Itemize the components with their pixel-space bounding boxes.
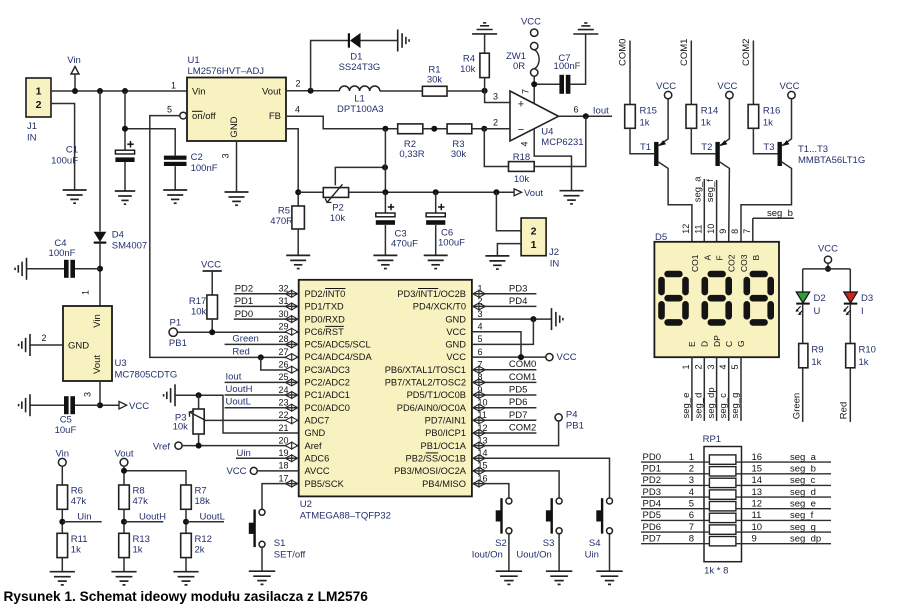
svg-text:PD5: PD5: [509, 385, 527, 396]
ground C6: [424, 254, 448, 256]
wire J2.1 to ground: [497, 244, 521, 256]
pin arrow (U2 right): [473, 442, 486, 449]
ground R13: [111, 571, 136, 573]
svg-text:Iout: Iout: [593, 106, 609, 117]
svg-text:L1: L1: [354, 94, 365, 105]
ground P3 (rotated): [174, 384, 176, 406]
svg-text:MC7805CDTG: MC7805CDTG: [115, 370, 178, 381]
svg-text:3: 3: [493, 92, 498, 102]
pin arrow (U2 right): [473, 303, 486, 310]
junction Vout branch: [121, 468, 127, 474]
svg-text:R17: R17: [189, 296, 206, 307]
svg-text:ADC7: ADC7: [305, 416, 330, 426]
svg-text:VCC: VCC: [656, 81, 676, 92]
svg-text:C2: C2: [191, 152, 203, 163]
resistor R14: [686, 105, 697, 129]
svg-text:R12: R12: [195, 534, 212, 545]
pin arrow (U2 right): [473, 404, 486, 411]
svg-text:seg_f: seg_f: [705, 179, 716, 203]
wire D3 to R10: [849, 304, 851, 344]
svg-text:PB7/XTAL2/TOSC2: PB7/XTAL2/TOSC2: [385, 378, 466, 388]
svg-text:U: U: [814, 306, 821, 317]
svg-text:Vout: Vout: [262, 87, 281, 98]
svg-text:Vin: Vin: [67, 55, 81, 66]
svg-text:R13: R13: [133, 534, 150, 545]
pin arrow (U2 left): [285, 392, 298, 399]
svg-text:D4: D4: [112, 230, 124, 241]
svg-text:PD2/INT0: PD2/INT0: [305, 289, 346, 299]
svg-text:PD5: PD5: [643, 510, 661, 521]
svg-text:7: 7: [742, 229, 752, 234]
wire GND pin3 to ground: [472, 318, 552, 320]
wire T1 collector: [659, 162, 692, 242]
svg-text:VCC: VCC: [129, 401, 149, 412]
junction rail/R5: [295, 189, 301, 195]
svg-text:30k: 30k: [427, 75, 443, 86]
svg-text:PD6/AIN0/OC0A: PD6/AIN0/OC0A: [397, 403, 467, 413]
pin arrow (U2 right): [473, 455, 486, 462]
junction R17/P1: [209, 329, 215, 335]
svg-text:9: 9: [752, 533, 757, 544]
overline INT1 (right): [418, 288, 438, 290]
svg-text:15: 15: [752, 464, 763, 475]
svg-text:U3: U3: [115, 358, 127, 369]
svg-text:2: 2: [689, 464, 694, 475]
wire pin4 to ground: [534, 129, 571, 191]
svg-text:470R: 470R: [270, 216, 293, 227]
wire R11 to ground: [61, 558, 63, 572]
wire R9 to Green net: [802, 368, 804, 422]
wire Vref to U2 pin20: [182, 445, 299, 447]
resistor R15: [625, 105, 636, 129]
svg-text:seg_dp: seg_dp: [706, 387, 717, 418]
pin arrow (U2 left): [285, 404, 298, 411]
svg-text:16: 16: [752, 452, 763, 463]
junction R2/R3 node: [431, 126, 437, 132]
pin arrow (U2 left): [285, 328, 298, 335]
wire C7 to ground: [570, 34, 585, 84]
power flag VCC (arrow): [119, 401, 127, 409]
svg-text:VCC: VCC: [226, 466, 246, 477]
resistor R3: [447, 124, 472, 134]
svg-text:470uF: 470uF: [391, 239, 418, 250]
net stub seg_c (display pin 4): [728, 357, 730, 421]
svg-text:P2: P2: [332, 203, 344, 214]
ground C3: [373, 254, 397, 256]
svg-text:2: 2: [531, 226, 537, 238]
svg-text:FB: FB: [269, 111, 281, 122]
svg-text:COM0: COM0: [618, 39, 629, 66]
net stub PD4 (RP1 pin 5): [641, 508, 709, 510]
svg-text:PD4/XCK/T0: PD4/XCK/T0: [413, 302, 466, 312]
svg-text:PD4: PD4: [509, 296, 527, 307]
pin arrow (U2 right): [473, 480, 486, 487]
resistor R8: [119, 485, 130, 509]
svg-text:29: 29: [278, 322, 288, 332]
pin arrow (U2 left): [285, 290, 298, 297]
wire P1 to U2 pin29: [177, 331, 298, 333]
digit 8 (right): [753, 271, 765, 278]
svg-text:27: 27: [278, 347, 288, 357]
wire U2 pin17 to S1: [262, 484, 299, 510]
svg-text:21: 21: [278, 423, 288, 433]
net stub seg_f (display): [716, 180, 718, 242]
svg-text:T1...T3: T1...T3: [798, 144, 828, 155]
switch S4: [601, 498, 603, 533]
svg-text:SM4007: SM4007: [112, 241, 147, 252]
svg-text:24: 24: [278, 385, 288, 395]
svg-text:seg_g: seg_g: [730, 393, 741, 419]
resistor R16: [748, 105, 759, 129]
svg-text:100nF: 100nF: [191, 163, 218, 174]
capacitor C5: [30, 404, 64, 406]
ground R4 (top, inverted): [472, 33, 497, 35]
junction Vout switch node: [308, 88, 314, 94]
svg-text:20: 20: [278, 435, 288, 445]
RP1 element 8: [709, 537, 736, 546]
svg-text:PC6/RST: PC6/RST: [305, 327, 345, 337]
svg-text:G: G: [736, 340, 746, 347]
net stub seg_d (display pin 2): [703, 357, 705, 421]
svg-text:R16: R16: [763, 106, 780, 117]
junction GND pins: [530, 316, 536, 322]
wire T2 collector: [720, 162, 730, 242]
svg-text:U1: U1: [188, 55, 200, 66]
net stub Green: [225, 343, 299, 345]
svg-text:12: 12: [752, 498, 763, 509]
net stub UoutL (U2): [225, 407, 299, 409]
junction output/R18: [583, 113, 589, 119]
svg-text:seg_c: seg_c: [718, 393, 729, 419]
capacitor C6: [435, 192, 437, 213]
svg-text:D3: D3: [861, 293, 873, 304]
svg-text:SS24T3G: SS24T3G: [339, 62, 381, 73]
svg-text:0,33R: 0,33R: [399, 149, 424, 160]
svg-text:S2: S2: [495, 538, 507, 549]
svg-text:11: 11: [694, 224, 704, 233]
wire S4 to ground: [609, 534, 611, 571]
svg-text:VCC: VCC: [201, 260, 221, 271]
svg-text:1: 1: [681, 364, 691, 369]
svg-text:PB2/SS/OC1B: PB2/SS/OC1B: [406, 453, 466, 463]
wire P4 to U2 pin13: [472, 421, 559, 446]
inductor L1: [339, 86, 379, 91]
svg-text:UoutH: UoutH: [139, 512, 166, 523]
svg-text:100nF: 100nF: [49, 248, 76, 259]
pin arrow (U2 right): [473, 417, 486, 424]
overline SS (right): [426, 452, 438, 454]
wire L1 to R1: [380, 90, 423, 92]
svg-text:Red: Red: [839, 402, 850, 419]
svg-text:Aref: Aref: [305, 441, 322, 451]
pin arrow (U2 left): [285, 455, 298, 462]
svg-text:GND: GND: [229, 116, 240, 137]
svg-text:Vref: Vref: [153, 442, 170, 453]
svg-text:S1: S1: [274, 538, 286, 549]
pin arrow (U2 left): [285, 341, 298, 348]
svg-text:1k: 1k: [133, 545, 143, 556]
display D5: [654, 242, 779, 357]
svg-text:GND: GND: [68, 341, 89, 352]
svg-text:R8: R8: [133, 486, 145, 497]
svg-text:C5: C5: [60, 415, 72, 426]
svg-text:3: 3: [689, 475, 694, 486]
test point P1: [169, 328, 177, 336]
capacitor C1: [124, 91, 126, 150]
net stub seg_g (RP1 pin 10): [736, 531, 831, 533]
svg-text:PB3/MOSI/OC2A: PB3/MOSI/OC2A: [394, 466, 467, 476]
wire R5 to ground: [297, 229, 299, 255]
svg-text:31: 31: [278, 296, 288, 306]
wire U2 pin15 to S3: [472, 471, 559, 498]
wire D2 to R9: [802, 304, 804, 344]
wire FB node vertical: [384, 129, 386, 193]
wire S1 to ground: [261, 547, 263, 571]
svg-text:PD7: PD7: [643, 533, 661, 544]
RP1 element 6: [709, 513, 736, 522]
svg-text:D2: D2: [814, 293, 826, 304]
svg-text:1k: 1k: [763, 118, 773, 129]
svg-text:10uF: 10uF: [55, 425, 77, 436]
svg-text:seg_dp: seg_dp: [790, 533, 821, 544]
svg-text:PD3: PD3: [509, 283, 527, 294]
svg-text:Iout/On: Iout/On: [472, 550, 503, 561]
svg-text:Uin: Uin: [585, 550, 599, 561]
wire Vout to R8: [123, 466, 125, 485]
svg-text:I: I: [861, 306, 864, 317]
wire S2 to ground: [508, 534, 510, 571]
svg-text:6: 6: [689, 510, 694, 521]
svg-text:D: D: [700, 341, 710, 347]
wire output rail: [349, 191, 514, 193]
svg-text:2: 2: [694, 364, 704, 369]
svg-text:PB1: PB1: [169, 338, 187, 349]
svg-text:CO3: CO3: [739, 254, 749, 272]
capacitor C4: [27, 268, 65, 270]
junction rail/C6: [433, 189, 439, 195]
svg-text:C1: C1: [66, 145, 78, 156]
overline INT0: [325, 288, 345, 290]
svg-text:PD2: PD2: [235, 284, 253, 295]
svg-text:11: 11: [752, 510, 762, 521]
svg-text:F: F: [715, 255, 725, 260]
svg-text:12: 12: [681, 224, 691, 234]
svg-text:seg_e: seg_e: [681, 393, 692, 419]
wire VCC pin6 to terminal: [472, 356, 546, 358]
net stub seg_e (display pin 1): [691, 357, 693, 421]
svg-text:D5: D5: [655, 232, 667, 243]
wire R4 to + input: [484, 78, 486, 91]
svg-text:2: 2: [296, 79, 301, 89]
switch S1: [253, 510, 255, 548]
svg-text:COM2: COM2: [741, 39, 752, 66]
svg-text:PC1/ADC1: PC1/ADC1: [305, 390, 350, 400]
svg-text:VCC: VCC: [779, 81, 799, 92]
transistor T2: [715, 142, 719, 166]
svg-text:VCC: VCC: [446, 352, 466, 362]
svg-text:PB6/XTAL1/TOSC1: PB6/XTAL1/TOSC1: [385, 365, 466, 375]
svg-text:Uin: Uin: [237, 448, 251, 459]
svg-text:9: 9: [718, 229, 728, 234]
power terminal VCC (U2): [546, 354, 553, 361]
svg-text:Uin: Uin: [77, 512, 91, 523]
svg-text:1: 1: [36, 86, 42, 98]
resistor R11: [57, 533, 68, 557]
LED D3 (red): [844, 292, 858, 303]
pin arrow (U2 left): [285, 379, 298, 386]
svg-text:RP1: RP1: [703, 434, 721, 445]
svg-text:seg_e: seg_e: [790, 498, 816, 509]
svg-text:100uF: 100uF: [438, 238, 465, 249]
wire P2 wiper loop: [335, 167, 385, 185]
svg-text:PB1: PB1: [566, 421, 584, 432]
svg-text:seg_b: seg_b: [767, 208, 793, 219]
wire Vin flag stem: [74, 74, 76, 91]
junction LED split: [825, 266, 831, 272]
svg-text:PD0: PD0: [643, 452, 661, 463]
svg-text:PB5/SCK: PB5/SCK: [305, 479, 345, 489]
svg-text:UoutH: UoutH: [226, 384, 253, 395]
junction VCC pins: [518, 354, 524, 360]
voltage regulator U1: [187, 78, 286, 142]
svg-text:IN: IN: [550, 259, 560, 270]
junction R4 bottom: [482, 88, 488, 94]
ground C2: [163, 189, 187, 191]
svg-text:PC0/ADC0: PC0/ADC0: [305, 403, 350, 413]
svg-text:VCC: VCC: [818, 244, 838, 255]
test point P4: [555, 414, 562, 421]
potentiometer P3: [198, 395, 200, 409]
svg-text:PD0: PD0: [235, 309, 253, 320]
svg-text:1: 1: [531, 239, 537, 251]
svg-text:17: 17: [278, 473, 288, 483]
svg-text:P1: P1: [170, 318, 182, 329]
net stub seg_a (RP1 pin 16): [736, 461, 831, 463]
wire D1 to ground: [361, 40, 398, 42]
digit 8 (middle): [711, 271, 723, 278]
svg-text:4: 4: [520, 141, 530, 146]
wire R14 to T2 base: [691, 128, 715, 153]
svg-text:1k: 1k: [701, 118, 711, 129]
net stub PD2: [234, 293, 299, 295]
wire T3 collector: [741, 162, 792, 242]
junction P3/Vref: [196, 443, 202, 449]
resistor R5: [292, 206, 305, 229]
svg-text:S4: S4: [589, 538, 601, 549]
svg-text:ADC6: ADC6: [305, 453, 330, 463]
net stub PD5: [472, 394, 537, 396]
pin arrow (U2 left): [285, 354, 298, 361]
junction C4 tap: [97, 266, 103, 272]
net stub COM2: [472, 432, 537, 434]
wire LED branches: [803, 268, 851, 270]
svg-text:Vin: Vin: [92, 314, 103, 328]
wire R18 to output: [534, 116, 586, 166]
svg-text:10: 10: [706, 224, 716, 234]
svg-text:LM2576HVT–ADJ: LM2576HVT–ADJ: [188, 66, 265, 77]
svg-text:5: 5: [167, 105, 172, 115]
svg-text:COM2: COM2: [509, 423, 536, 434]
wire S3 to ground: [558, 534, 560, 571]
svg-text:14: 14: [752, 475, 763, 486]
wire U2 pin16 to S2: [472, 484, 509, 498]
junction UoutL: [183, 519, 189, 525]
net stub UoutH: [124, 521, 163, 523]
pin arrow (U2 left): [285, 480, 298, 487]
svg-text:100nF: 100nF: [554, 61, 581, 72]
voltage regulator U3: [63, 306, 112, 381]
wire R16 to T3 base: [753, 128, 777, 153]
svg-text:Iout: Iout: [226, 371, 242, 382]
svg-text:Green: Green: [232, 333, 258, 344]
svg-text:10k: 10k: [460, 64, 476, 75]
net stub seg_a (display): [703, 179, 705, 242]
U1 on/off inversion circle: [180, 112, 187, 119]
svg-text:PD7/AIN1: PD7/AIN1: [425, 416, 466, 426]
wire P3 wiper to U2 pin22: [206, 419, 299, 421]
net stub PD2 (RP1 pin 3): [641, 484, 709, 486]
svg-text:1: 1: [171, 81, 176, 91]
net stub seg_g (display pin 5): [740, 357, 742, 421]
RP1 element 2: [709, 467, 736, 476]
net line COM2: [752, 41, 754, 105]
switch S2: [500, 498, 502, 533]
svg-text:CO1: CO1: [690, 254, 700, 272]
RP1 element 5: [709, 502, 736, 511]
junction - input / R18 node: [481, 126, 487, 132]
svg-text:Uout/On: Uout/On: [516, 550, 551, 561]
net stub PD6 (RP1 pin 7): [641, 531, 709, 533]
pin arrow (U2 right): [473, 379, 486, 386]
LED D2 (green): [796, 292, 810, 303]
digit 8 (left): [668, 271, 680, 278]
ground R12: [173, 571, 198, 573]
svg-text:UoutL: UoutL: [200, 512, 225, 523]
svg-text:1k: 1k: [71, 545, 81, 556]
svg-text:2: 2: [41, 333, 46, 343]
svg-text:U2: U2: [300, 499, 312, 510]
wire R15 to T1 base: [630, 128, 654, 153]
ground J2: [485, 255, 509, 257]
svg-text:R18: R18: [513, 152, 530, 163]
svg-text:R9: R9: [811, 345, 823, 356]
power flag Vout (arrow): [514, 189, 522, 196]
wire R8 to R13: [123, 509, 125, 533]
test point Vref: [175, 442, 182, 449]
svg-text:PD2: PD2: [643, 475, 661, 486]
capacitor C3: [384, 192, 386, 213]
wire U1.Vout node: [286, 90, 339, 92]
junction UoutH: [121, 519, 127, 525]
svg-text:R14: R14: [701, 106, 718, 117]
wire R6 to R11: [61, 509, 63, 533]
svg-text:26: 26: [278, 360, 288, 370]
svg-text:PB4/MISO: PB4/MISO: [422, 479, 466, 489]
junction Red net: [258, 354, 264, 360]
net stub Uin (U2): [236, 457, 299, 459]
net stub seg_d (RP1 pin 13): [736, 496, 831, 498]
wire D4 to U3.Vin: [99, 243, 101, 306]
svg-text:seg_b: seg_b: [790, 464, 816, 475]
overline RST: [325, 325, 344, 327]
RP1 element 7: [709, 525, 736, 534]
svg-text:1: 1: [81, 290, 91, 295]
wire VCC pin4 to pin6: [472, 332, 521, 357]
RP1 element 1: [709, 455, 736, 464]
svg-text:R6: R6: [71, 486, 83, 497]
wire switch node up to D1: [311, 41, 349, 91]
junction P3 top: [196, 392, 202, 398]
